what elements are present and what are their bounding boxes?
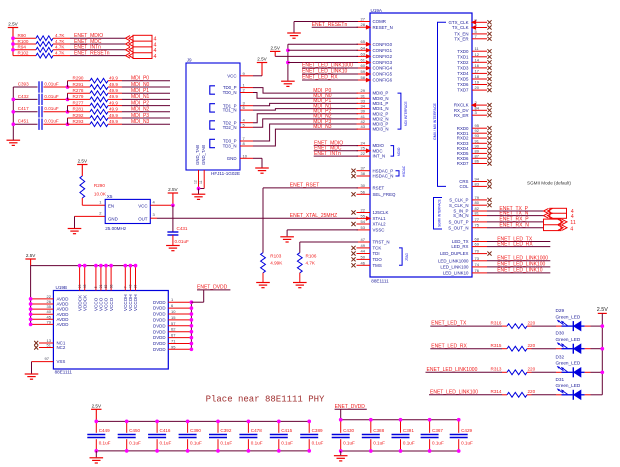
svg-text:47: 47 [361,237,366,242]
svg-text:4.7K: 4.7K [55,39,65,44]
svg-text:58: 58 [361,75,366,80]
svg-text:DVDD: DVDD [153,347,165,352]
svg-text:54: 54 [361,219,366,224]
svg-text:C431: C431 [177,226,188,231]
svg-text:CONFIG1: CONFIG1 [373,48,393,53]
svg-text:DVDD: DVDD [153,335,165,340]
svg-text:TD1_N: TD1_N [223,108,237,113]
svg-text:R277: R277 [73,100,84,105]
svg-text:0.1uF: 0.1uF [312,441,324,446]
svg-text:TXD7: TXD7 [457,88,469,93]
svg-text:R94: R94 [18,45,27,50]
svg-text:0.1uF: 0.1uF [281,441,293,446]
svg-text:GND: GND [227,156,237,161]
svg-text:65: 65 [361,39,366,44]
svg-text:S_OUT_P: S_OUT_P [448,220,468,225]
svg-text:7: 7 [124,286,128,288]
svg-text:4.7K: 4.7K [55,50,65,55]
svg-text:62: 62 [171,327,176,332]
svg-text:79: 79 [47,319,52,324]
svg-text:5: 5 [94,286,98,288]
svg-text:C391: C391 [403,428,414,433]
svg-text:11: 11 [570,220,576,226]
svg-text:HSDAC: HSDAC [402,165,406,177]
svg-text:C392: C392 [220,428,231,433]
svg-text:D32: D32 [556,354,565,359]
svg-text:49.9: 49.9 [109,88,118,93]
svg-text:67: 67 [171,333,176,338]
svg-text:R291: R291 [73,82,84,87]
svg-text:R292: R292 [73,113,84,118]
svg-text:U19B: U19B [56,285,68,290]
svg-text:CONFIG5: CONFIG5 [373,72,393,77]
svg-text:MDI_P3: MDI_P3 [131,113,149,119]
svg-text:COMR: COMR [373,19,386,24]
svg-text:4.7K: 4.7K [55,33,65,38]
svg-text:RESET_N: RESET_N [373,25,393,30]
svg-text:VSS: VSS [57,359,66,364]
svg-text:DVDD: DVDD [153,306,165,311]
svg-text:S_IN_N: S_IN_N [453,213,468,218]
svg-text:VDDCK: VDDCK [82,294,87,311]
svg-text:NC2: NC2 [57,345,66,350]
svg-text:38: 38 [361,171,366,176]
svg-text:Green_LED: Green_LED [556,337,581,342]
svg-text:CONFIG4: CONFIG4 [373,66,393,71]
svg-text:DVDD: DVDD [153,329,165,334]
svg-text:Place near 88E1111 PHY: Place near 88E1111 PHY [206,395,325,405]
svg-text:49.9: 49.9 [109,100,118,105]
svg-text:LED_LINK10: LED_LINK10 [443,271,469,276]
svg-text:22: 22 [361,208,366,213]
svg-text:0.1uF: 0.1uF [99,441,111,446]
svg-text:ENET_LED_RX: ENET_LED_RX [302,75,338,81]
svg-text:R290: R290 [94,183,105,188]
svg-text:0.1uF: 0.1uF [251,441,263,446]
svg-text:70: 70 [475,249,480,254]
svg-text:53: 53 [361,225,366,230]
svg-text:11: 11 [199,180,203,184]
svg-text:2.5V: 2.5V [257,57,267,62]
svg-text:43: 43 [361,124,366,129]
svg-text:12: 12 [194,180,198,184]
svg-text:80: 80 [475,200,480,205]
svg-text:49: 49 [361,243,366,248]
svg-text:TX_ER: TX_ER [454,36,468,41]
svg-text:61: 61 [361,58,366,63]
svg-text:49.9: 49.9 [109,76,118,81]
svg-text:R290: R290 [73,76,84,81]
svg-text:22: 22 [361,151,366,156]
svg-text:GND: GND [108,216,118,221]
svg-text:LED_LINK1000: LED_LINK1000 [438,258,469,263]
svg-text:Green_LED: Green_LED [556,361,581,366]
svg-text:48: 48 [83,284,87,288]
svg-text:R103: R103 [270,254,281,259]
svg-text:C450: C450 [129,428,140,433]
svg-text:43: 43 [129,284,133,288]
svg-text:88E1111: 88E1111 [55,370,73,375]
svg-text:DVDD: DVDD [153,300,165,305]
svg-text:HFJ11-1G02E: HFJ11-1G02E [211,171,240,176]
svg-text:ENET_LED_RX: ENET_LED_RX [497,241,533,247]
svg-text:CONFIG6: CONFIG6 [373,78,393,83]
svg-text:C389: C389 [312,428,323,433]
svg-text:ENET_RESETn: ENET_RESETn [312,22,348,28]
svg-text:C478: C478 [251,428,262,433]
svg-text:CONFIG0: CONFIG0 [373,42,393,47]
svg-text:Green_LED: Green_LED [556,315,581,320]
svg-text:MDI INTERFACE: MDI INTERFACE [404,101,408,126]
svg-text:R293: R293 [73,119,84,124]
svg-text:0.01uF: 0.01uF [44,81,58,86]
svg-text:TD0_N: TD0_N [223,90,237,95]
svg-text:97: 97 [45,356,50,361]
svg-text:0.1uF: 0.1uF [403,441,415,446]
svg-text:25: 25 [361,146,366,151]
svg-text:30: 30 [361,183,366,188]
svg-text:EN: EN [108,204,114,209]
svg-text:HSDAC_P: HSDAC_P [373,168,394,173]
svg-text:C432: C432 [18,94,29,99]
svg-text:TMS: TMS [373,263,382,268]
svg-text:SGMII Mode (default): SGMII Mode (default) [527,181,571,186]
svg-text:0.01uF: 0.01uF [44,119,58,124]
svg-text:MDI_P2: MDI_P2 [131,100,149,106]
svg-text:10.0K: 10.0K [94,192,107,197]
svg-text:17: 17 [475,68,480,73]
svg-text:TXD3: TXD3 [457,66,469,71]
svg-text:63: 63 [361,51,366,56]
svg-text:16: 16 [475,63,480,68]
svg-text:C367: C367 [432,428,443,433]
svg-text:2.5V: 2.5V [78,159,88,164]
svg-text:49.9: 49.9 [109,113,118,118]
svg-text:2.5V: 2.5V [92,404,102,409]
svg-text:59: 59 [361,69,366,74]
svg-text:37: 37 [361,166,366,171]
svg-text:R315: R315 [491,343,502,348]
svg-text:LED_RX: LED_RX [451,244,468,249]
svg-text:4.7K: 4.7K [306,261,316,266]
svg-text:GND_TAB: GND_TAB [201,145,206,165]
svg-text:C415: C415 [281,428,292,433]
svg-text:14: 14 [475,57,480,62]
svg-text:MDI_N2: MDI_N2 [131,107,150,113]
svg-text:R279: R279 [73,94,84,99]
svg-text:D30: D30 [556,331,565,336]
svg-text:81: 81 [475,211,480,216]
svg-text:TXD4: TXD4 [457,71,469,76]
svg-text:74: 74 [475,262,480,267]
svg-text:S_CLK_P: S_CLK_P [449,198,468,203]
svg-text:10: 10 [171,309,176,314]
svg-text:MDI_N1: MDI_N1 [131,94,150,100]
svg-text:71: 71 [171,339,176,344]
svg-text:TX_CLK: TX_CLK [452,25,469,30]
svg-text:DVDD: DVDD [153,341,165,346]
svg-text:DVDD: DVDD [153,318,165,323]
svg-text:MDI_P1: MDI_P1 [131,88,149,94]
svg-text:TDI: TDI [373,251,380,256]
svg-text:HSDAC_N: HSDAC_N [373,174,394,179]
svg-text:S_OUT_N: S_OUT_N [448,225,468,230]
svg-text:C393: C393 [18,81,29,86]
svg-text:U19A: U19A [371,8,383,13]
svg-text:Green_LED: Green_LED [556,383,581,388]
svg-text:ENET_INTn: ENET_INTn [314,151,341,157]
svg-text:VCCO: VCCO [109,297,114,311]
svg-text:15: 15 [171,315,176,320]
svg-text:50: 50 [361,254,366,259]
svg-text:RXD7: RXD7 [457,161,469,166]
svg-text:TXD2: TXD2 [457,60,469,65]
svg-text:MDI_N3: MDI_N3 [131,119,150,125]
svg-text:D29: D29 [556,308,565,313]
svg-text:0.1uF: 0.1uF [190,441,202,446]
svg-text:TRST_N: TRST_N [373,240,390,245]
svg-text:51: 51 [47,343,52,348]
svg-text:DVDD: DVDD [153,312,165,317]
svg-text:0.1uF: 0.1uF [373,441,385,446]
svg-text:TXD6: TXD6 [457,82,469,87]
svg-text:TD3_N: TD3_N [223,144,237,149]
svg-text:125CLK: 125CLK [373,210,389,215]
svg-text:INT_N: INT_N [373,154,386,159]
svg-text:55: 55 [361,213,366,218]
svg-text:TXD5: TXD5 [457,77,469,82]
svg-text:95: 95 [171,344,176,349]
svg-text:OUT: OUT [138,216,148,221]
svg-text:R106: R106 [306,254,317,259]
svg-text:49.9: 49.9 [109,94,118,99]
svg-text:57: 57 [171,321,176,326]
svg-text:X5: X5 [107,194,113,199]
svg-text:4.99K: 4.99K [270,261,283,266]
svg-text:23: 23 [78,284,82,288]
svg-text:88: 88 [109,284,113,288]
svg-text:0.1uF: 0.1uF [129,441,141,446]
svg-text:0.1uF: 0.1uF [220,441,232,446]
svg-text:VSSC: VSSC [373,228,385,233]
svg-text:60: 60 [361,63,366,68]
svg-text:88E1111: 88E1111 [371,279,389,284]
svg-text:0.1uF: 0.1uF [461,441,473,446]
svg-text:CONFIG3: CONFIG3 [373,60,393,65]
svg-text:28: 28 [361,22,366,27]
svg-text:79: 79 [475,195,480,200]
svg-text:MDIO: MDIO [397,147,401,156]
svg-text:0.1uF: 0.1uF [343,441,355,446]
svg-text:220: 220 [528,389,536,394]
svg-text:20: 20 [475,85,480,90]
svg-text:TDO: TDO [373,257,383,262]
svg-text:VCC: VCC [138,204,147,209]
svg-text:220: 220 [528,367,536,372]
svg-text:ENET_LED_LINK10: ENET_LED_LINK10 [497,268,543,274]
svg-text:0.1uF: 0.1uF [432,441,444,446]
svg-text:LED_DUPLEX: LED_DUPLEX [440,251,469,256]
svg-text:83: 83 [475,181,480,186]
svg-text:J9: J9 [187,58,192,63]
svg-text:4: 4 [154,54,157,60]
svg-text:COL: COL [459,184,469,189]
svg-text:64: 64 [361,45,366,50]
svg-text:ENET_RESETn: ENET_RESETn [74,50,110,56]
svg-text:TD2_N: TD2_N [223,125,237,130]
svg-text:S_CLK_N: S_CLK_N [449,203,469,208]
svg-text:77: 77 [475,217,480,222]
svg-text:DVDD: DVDD [153,323,165,328]
svg-text:R316: R316 [491,321,502,326]
svg-text:AVDD: AVDD [57,322,69,327]
svg-text:R313: R313 [491,367,502,372]
svg-text:C416: C416 [160,428,171,433]
svg-text:LED_LINK100: LED_LINK100 [440,265,469,270]
svg-text:220: 220 [528,343,536,348]
svg-text:73: 73 [475,256,480,261]
svg-text:69: 69 [475,242,480,247]
svg-text:MDI_N3: MDI_N3 [313,124,332,130]
svg-text:4: 4 [570,226,573,232]
svg-text:MDI_P0: MDI_P0 [131,76,149,82]
svg-text:21: 21 [99,284,103,288]
svg-text:49.9: 49.9 [109,107,118,112]
svg-text:JTAG: JTAG [405,253,409,261]
svg-text:44: 44 [361,249,366,254]
svg-text:4: 4 [571,214,574,220]
svg-text:C417: C417 [18,106,29,111]
svg-text:RSET: RSET [373,186,385,191]
svg-text:R100: R100 [18,39,29,44]
svg-text:ENET_RSET: ENET_RSET [290,183,319,189]
svg-text:C449: C449 [99,428,110,433]
svg-text:2.5V: 2.5V [168,187,178,192]
svg-text:R314: R314 [491,389,502,394]
svg-text:49.9: 49.9 [109,82,118,87]
svg-text:C390: C390 [190,428,201,433]
svg-text:ENET_LED_LINK1000: ENET_LED_LINK1000 [497,256,548,262]
svg-text:0.01uF: 0.01uF [44,106,58,111]
svg-text:TXD0: TXD0 [457,49,469,54]
svg-text:76: 76 [475,268,480,273]
svg-text:75: 75 [475,223,480,228]
svg-text:220: 220 [528,321,536,326]
svg-text:2.5V: 2.5V [26,253,36,258]
svg-text:XTAL1: XTAL1 [373,216,387,221]
svg-text:4.7K: 4.7K [55,45,65,50]
svg-text:SEL_FREQ: SEL_FREQ [373,192,397,197]
svg-text:C430: C430 [343,428,354,433]
svg-text:12: 12 [475,52,480,57]
svg-text:VCC: VCC [227,73,236,78]
svg-text:46: 46 [361,260,366,265]
svg-text:MDC: MDC [373,148,383,153]
svg-text:R278: R278 [73,88,84,93]
svg-text:10: 10 [243,153,248,158]
svg-text:19: 19 [475,80,480,85]
svg-text:C388: C388 [373,428,384,433]
svg-text:GMII / MII INTERFACE: GMII / MII INTERFACE [433,102,437,140]
svg-text:93: 93 [134,284,138,288]
svg-text:2.5V: 2.5V [597,307,608,313]
svg-text:R90: R90 [18,33,27,38]
svg-text:63: 63 [104,284,108,288]
svg-text:CONFIG2: CONFIG2 [373,54,393,59]
svg-text:GND_TAB: GND_TAB [195,145,200,165]
svg-text:MDI_N0: MDI_N0 [131,82,150,88]
svg-text:C429: C429 [461,428,472,433]
svg-text:TCK: TCK [373,246,382,251]
svg-text:C451: C451 [18,119,29,124]
svg-text:0.1uF: 0.1uF [160,441,172,446]
svg-text:XTAL2: XTAL2 [373,222,387,227]
svg-text:TXD1: TXD1 [457,54,469,59]
svg-text:SGMII INTERFACE: SGMII INTERFACE [438,199,442,227]
svg-text:25.00MHz: 25.00MHz [105,226,127,231]
svg-text:18: 18 [475,74,480,79]
svg-text:D31: D31 [556,377,565,382]
svg-text:86: 86 [475,159,480,164]
svg-text:R102: R102 [18,50,29,55]
svg-text:R281: R281 [73,107,84,112]
svg-text:2.5V: 2.5V [8,22,18,27]
svg-text:49.9: 49.9 [109,119,118,124]
svg-text:RX_ER: RX_ER [454,113,469,118]
svg-text:VCCOH: VCCOH [133,294,138,311]
svg-text:27: 27 [361,17,366,22]
svg-text:2.5V: 2.5V [270,46,280,51]
svg-text:56: 56 [361,189,366,194]
svg-text:0.01uF: 0.01uF [44,94,58,99]
svg-text:MDI3_N: MDI3_N [373,127,389,132]
svg-text:ENET_XTAL_25MHZ: ENET_XTAL_25MHZ [290,213,337,219]
svg-text:0.01uF: 0.01uF [175,239,189,244]
